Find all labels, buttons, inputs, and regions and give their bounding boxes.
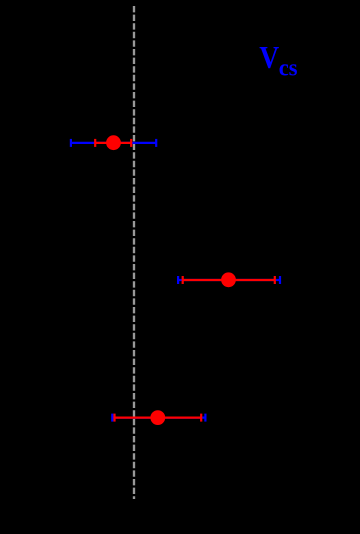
data point 1 : blue outer error bar: [71, 139, 156, 147]
data point 1 : red marker: [106, 135, 121, 150]
data point 3 : red inner error bar: [115, 414, 202, 422]
data point 3 : red marker: [150, 410, 165, 425]
svg-text:V: V: [259, 41, 279, 75]
data point 2 : blue outer error bar: [178, 276, 280, 284]
data point 1 : red inner error bar: [95, 139, 131, 147]
data point 2 : red marker: [221, 272, 236, 287]
label V_cs: [259, 41, 297, 81]
dashed vertical reference line: [133, 6, 135, 499]
svg-text:cs: cs: [279, 55, 298, 82]
data point 3 : blue outer error bar: [112, 414, 205, 422]
data point 2 : red inner error bar: [183, 276, 275, 284]
